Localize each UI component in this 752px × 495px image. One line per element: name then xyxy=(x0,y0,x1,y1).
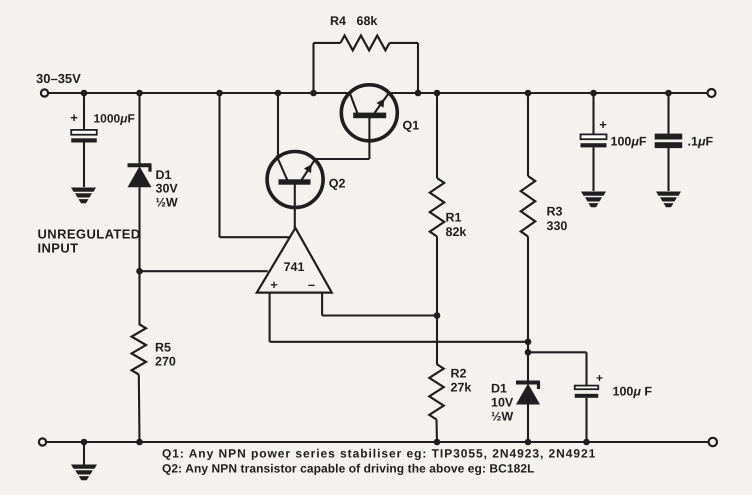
svg-text:100μF: 100μF xyxy=(611,135,647,149)
svg-text:R5: R5 xyxy=(155,341,171,355)
svg-text:+: + xyxy=(70,110,78,125)
svg-text:10V: 10V xyxy=(491,396,514,410)
svg-text:+: + xyxy=(596,371,603,385)
svg-text:R3: R3 xyxy=(547,205,563,219)
svg-text:741: 741 xyxy=(284,260,305,274)
svg-text:68k: 68k xyxy=(357,14,378,28)
svg-text:330: 330 xyxy=(547,219,568,233)
svg-text:27k: 27k xyxy=(451,381,472,395)
svg-text:30–35V: 30–35V xyxy=(36,71,81,86)
svg-text:UNREGULATED: UNREGULATED xyxy=(38,227,141,242)
svg-text:½W: ½W xyxy=(491,410,513,424)
svg-text:+: + xyxy=(599,117,607,132)
svg-text:−: − xyxy=(308,279,315,293)
svg-text:270: 270 xyxy=(155,355,176,369)
svg-text:Q2: Any NPN transistor capable: Q2: Any NPN transistor capable of drivin… xyxy=(162,462,535,476)
svg-text:R2: R2 xyxy=(451,367,467,381)
svg-text:R4: R4 xyxy=(330,14,346,28)
svg-text:D1: D1 xyxy=(491,382,507,396)
svg-text:1000μF: 1000μF xyxy=(94,112,135,126)
svg-text:.1μF: .1μF xyxy=(688,135,714,149)
svg-text:INPUT: INPUT xyxy=(38,241,79,256)
svg-text:Q1: Q1 xyxy=(403,119,420,133)
svg-text:100μ F: 100μ F xyxy=(613,385,653,399)
svg-text:Q1: Any NPN power series stabi: Q1: Any NPN power series stabiliser eg: … xyxy=(162,447,596,461)
svg-text:Q2: Q2 xyxy=(329,177,346,191)
svg-text:+: + xyxy=(270,278,277,292)
svg-text:R1: R1 xyxy=(446,211,462,225)
svg-text:82k: 82k xyxy=(446,225,467,239)
svg-text:30V: 30V xyxy=(156,182,179,196)
svg-text:D1: D1 xyxy=(156,168,172,182)
svg-text:½W: ½W xyxy=(156,196,178,210)
